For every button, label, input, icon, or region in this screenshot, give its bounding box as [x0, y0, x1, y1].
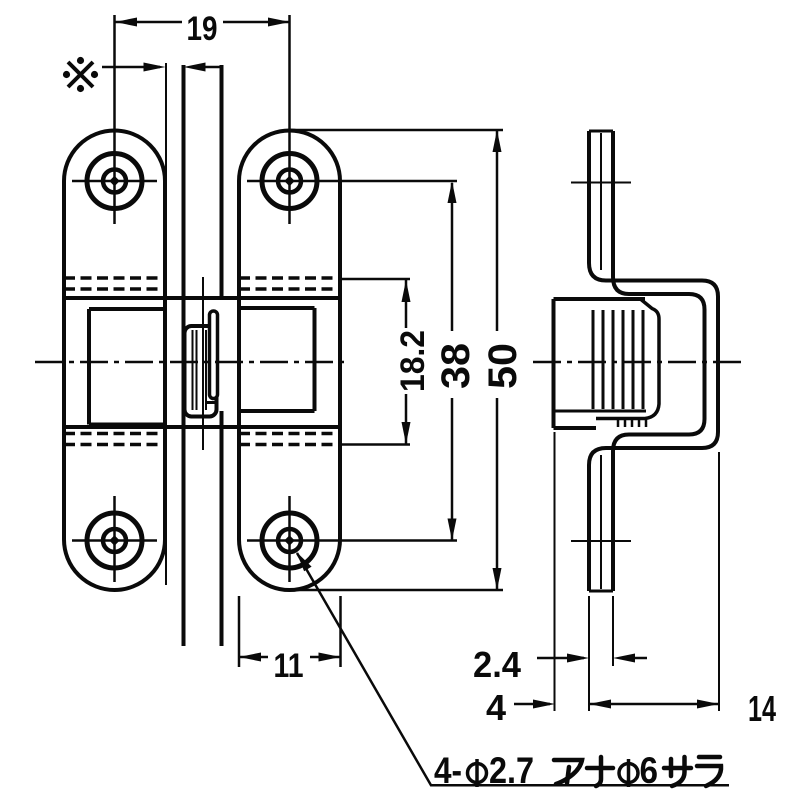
kana sa [664, 757, 691, 786]
knuckle inner thin line 1 [192, 330, 194, 410]
dim 38 arrow top [448, 181, 457, 203]
side view cup floor line [554, 410, 646, 413]
svg-text:18.2: 18.2 [394, 330, 432, 392]
side view flange thin line top [600, 133, 602, 270]
dim 38 extension bottom / bottom-right hole horizontal crosshair [247, 539, 457, 542]
dim 14 line [589, 703, 719, 706]
left leaf pocket bottom edge [89, 423, 165, 427]
hidden dashed line row 3 [64, 432, 165, 436]
dim 50 extension bottom [290, 589, 503, 592]
hole bottom-left horizontal crosshair [72, 539, 157, 542]
door gap thick line right lower [220, 411, 224, 646]
door gap thick line right upper [220, 65, 224, 298]
dim 18.2 line [405, 280, 408, 328]
door gap thick line left [182, 65, 186, 646]
hole bottom-left countersink circle [87, 513, 142, 568]
knuckle inner thin line 3 [205, 330, 207, 410]
kana ra [697, 757, 721, 786]
kana a [554, 760, 582, 784]
dim 50 line [496, 131, 499, 331]
side view cup left edge [552, 299, 556, 428]
front view horizontal centerline [35, 361, 345, 364]
side view cup bottom edge [554, 426, 597, 430]
dim 11 arrow left [239, 653, 261, 662]
hole top-left center mark [109, 176, 119, 186]
dim 2.4 right tail [630, 657, 647, 660]
pivot axis thin line [202, 277, 204, 450]
dim 14 arrow left [589, 700, 611, 709]
hole top-right center mark [284, 176, 294, 186]
hole bottom-left vertical crosshair [113, 496, 116, 582]
svg-text:38: 38 [434, 343, 478, 389]
hidden dashed line row 2 [64, 287, 165, 291]
hole bottom-right countersink circle [262, 513, 317, 568]
dim 4 line left tail [514, 703, 550, 706]
leader arrow [297, 552, 312, 571]
side view bottom screw hole tick [571, 540, 631, 542]
svg-text:2.7: 2.7 [489, 750, 534, 791]
dim 38 arrow bottom [448, 519, 457, 541]
hole bottom-right drill circle [278, 529, 301, 552]
dim 2.4 extension right [612, 596, 614, 666]
dim 11 extension right [339, 596, 342, 667]
hole top-right drill circle [278, 170, 301, 193]
knuckle bottom step line [206, 401, 217, 404]
dim 18.2 arrow top [402, 280, 411, 302]
left leaf pocket left edge [87, 309, 91, 425]
hole note phi symbol 1 [468, 764, 487, 783]
hole top-right countersink circle [262, 154, 317, 209]
dim 38 line [451, 183, 454, 331]
hole top-left countersink circle [87, 154, 142, 209]
dim 50 extension top [290, 129, 503, 132]
dim 38 extension top / top-right hole horizontal crosshair [247, 180, 457, 183]
dim 11 extension left [238, 596, 241, 667]
dim 11 line [239, 656, 268, 659]
svg-text:50: 50 [481, 343, 525, 389]
reference mark symbol [68, 62, 93, 87]
bottom fold line [64, 425, 340, 429]
gap dim line left tail [102, 66, 160, 69]
hole bottom-right center mark [284, 535, 294, 545]
svg-text:2.4: 2.4 [473, 644, 521, 685]
svg-text:4: 4 [486, 687, 506, 728]
side view flange thin line bottom [600, 455, 602, 589]
side view top flange cap [589, 130, 613, 133]
dim 4 arrow [533, 700, 555, 709]
gap dim arrow right [184, 63, 206, 72]
dim 18.2 extension top [341, 278, 411, 281]
hidden dashed line row 1 [64, 278, 340, 445]
dim 2.4 line left tail [537, 657, 584, 660]
side view top screw hole tick [571, 182, 631, 184]
dim 14 arrow right [697, 700, 719, 709]
gap dim arrow left [144, 63, 166, 72]
knuckle pin bar [210, 311, 218, 399]
door gap thin line [165, 63, 167, 585]
hole bottom-right vertical crosshair [288, 496, 291, 582]
dim 2.4 arrow right [613, 654, 635, 663]
dim 2.4 arrow left [567, 654, 589, 663]
svg-text:6: 6 [640, 750, 659, 791]
hole bottom-left drill circle [103, 529, 126, 552]
hole bottom-left center mark [109, 535, 119, 545]
side view link plates cluster [593, 310, 643, 409]
side view bottom flange cap [589, 590, 613, 593]
front view left leaf outline [64, 131, 165, 590]
dim 50 arrow top [493, 130, 502, 152]
side view horizontal centerline [533, 361, 746, 364]
svg-text:19: 19 [187, 10, 218, 48]
hole top-left horizontal crosshair [72, 180, 157, 183]
hidden dashed line row 4 [64, 443, 165, 447]
side view cup inner cushion [596, 300, 659, 419]
dim 4 extension cup face [554, 432, 556, 711]
svg-text:4-: 4- [434, 750, 462, 791]
right leaf pocket bottom edge [239, 409, 315, 413]
side view top flange right line [613, 131, 705, 591]
dim 2.4 extension left [588, 596, 590, 711]
right leaf pocket top edge [239, 306, 315, 310]
hole note phi symbol 2 [619, 764, 638, 783]
svg-text:14: 14 [748, 688, 776, 729]
leader line for hole note [297, 553, 729, 785]
top fold line [64, 296, 340, 300]
left leaf pocket top edge [89, 307, 165, 311]
right leaf pocket right edge [313, 308, 317, 411]
dim 11 arrow right [319, 653, 341, 662]
hole top-left drill circle [103, 170, 126, 193]
side view cup top edge [554, 297, 646, 301]
dim 50 arrow bottom [493, 568, 502, 590]
dim 18.2 arrow bottom [402, 422, 411, 444]
dim 18.2 extension bottom [341, 443, 411, 446]
dim 19 arrow right [268, 18, 290, 27]
dim 14 extension right [718, 452, 720, 711]
knuckle outer body [185, 326, 217, 417]
front view right leaf outline [239, 131, 340, 591]
kana na [587, 757, 613, 786]
knuckle inner thin line 2 [196, 330, 198, 410]
dim 19 extension line right / top-right hole vertical crosshair [288, 15, 291, 224]
gap dim right tail [200, 66, 220, 69]
dim 19 extension line left / top-left hole vertical crosshair [113, 15, 116, 224]
dim 19 arrow left [115, 18, 137, 27]
dim 19 line [115, 21, 182, 24]
svg-text:11: 11 [274, 647, 304, 685]
side view top flange left line [589, 131, 718, 591]
side view spring serration ticks [618, 417, 646, 427]
